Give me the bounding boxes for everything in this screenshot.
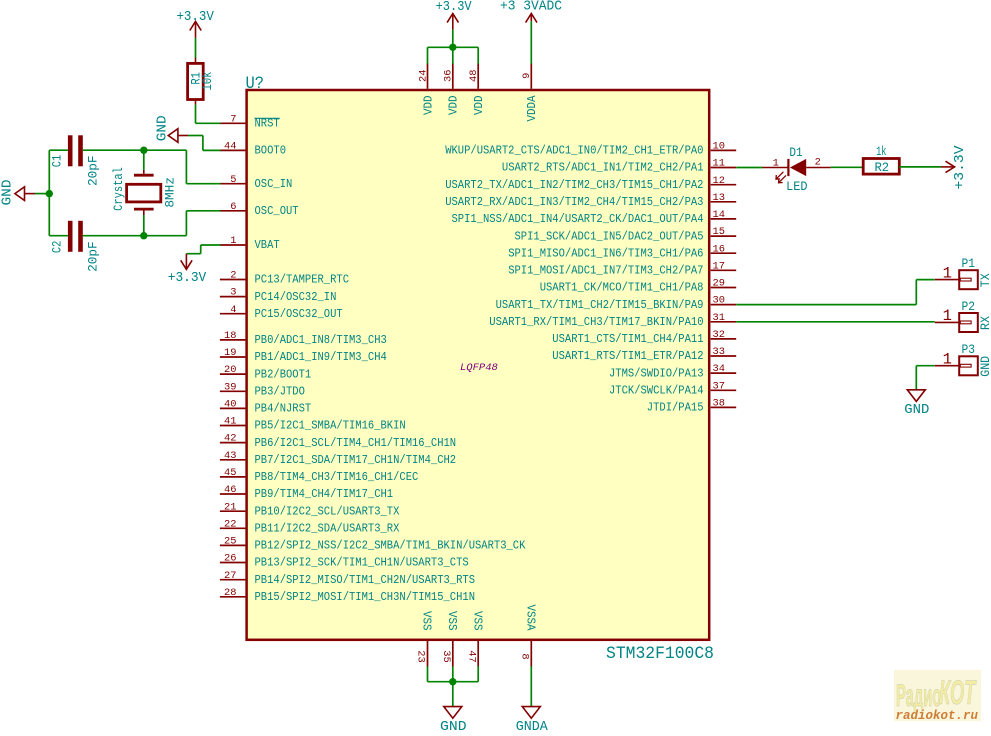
svg-text:6: 6 [230, 201, 236, 213]
svg-text:33: 33 [713, 346, 725, 358]
svg-text:48: 48 [468, 69, 480, 81]
svg-text:21: 21 [224, 501, 236, 513]
pin 45 (PB8/TIM4_CH3/TIM16_CH1/CEC) left [220, 467, 418, 484]
wire +3.3V to VDD junction [452, 30, 454, 64]
svg-text:1: 1 [943, 351, 952, 369]
power +3 3VADC (VDDA) [500, 0, 562, 23]
svg-text:2: 2 [815, 156, 821, 168]
pin 11 (PA1) right [502, 158, 736, 175]
pin 2 label of D1 [815, 156, 821, 168]
pin 27 (PB14/SPI2_MISO/TIM1_CH2N/USART3_RTS) left [220, 570, 475, 587]
svg-text:10: 10 [713, 141, 725, 153]
svg-text:26: 26 [224, 553, 236, 565]
svg-text:PB10/I2C2_SCL/USART3_TX: PB10/I2C2_SCL/USART3_TX [255, 504, 400, 518]
svg-text:20pF: 20pF [86, 155, 100, 186]
wire C2 to OSC_OUT [83, 211, 221, 236]
ground GND (P3) [904, 390, 929, 418]
wire crystal bottom stub [143, 215, 145, 236]
svg-text:PB9/TIM4_CH4/TIM17_CH1: PB9/TIM4_CH4/TIM17_CH1 [255, 487, 394, 501]
svg-text:8: 8 [519, 653, 531, 659]
svg-text:PB3/JTDO: PB3/JTDO [255, 385, 305, 399]
svg-text:42: 42 [224, 433, 236, 445]
svg-text:PB4/NJRST: PB4/NJRST [255, 402, 312, 416]
svg-text:SPI1_SCK/ADC1_IN5/DAC2_OUT/PA5: SPI1_SCK/ADC1_IN5/DAC2_OUT/PA5 [515, 229, 704, 243]
capacitor C2 20pF [51, 221, 101, 272]
svg-text:USART2_RTS/ADC1_IN1/TIM2_CH2/P: USART2_RTS/ADC1_IN1/TIM2_CH2/PA1 [502, 161, 704, 175]
pin 34 (PA13) right [609, 363, 736, 380]
svg-text:3: 3 [230, 287, 236, 299]
svg-text:PB6/I2C1_SCL/TIM4_CH1/TIM16_CH: PB6/I2C1_SCL/TIM4_CH1/TIM16_CH1N [255, 436, 457, 450]
svg-text:4: 4 [230, 304, 236, 316]
LED D1 [763, 146, 831, 194]
pin 46 (PB9/TIM4_CH4/TIM17_CH1) left [220, 484, 393, 501]
svg-text:1: 1 [943, 264, 952, 282]
svg-text:16: 16 [713, 243, 725, 255]
svg-text:PB2/BOOT1: PB2/BOOT1 [255, 367, 312, 381]
svg-text:GND: GND [440, 719, 467, 731]
svg-text:18: 18 [224, 330, 236, 342]
svg-text:24: 24 [417, 69, 429, 81]
svg-text:+3 3VADC: +3 3VADC [500, 0, 562, 14]
svg-text:47: 47 [465, 650, 477, 662]
svg-text:10k: 10k [201, 72, 215, 91]
wire VDDA [530, 21, 532, 64]
svg-text:38: 38 [713, 398, 725, 410]
pin 28 (PB15/SPI2_MOSI/TIM1_CH3N/TIM15_CH1N) left [220, 587, 475, 604]
wire C1 to OSC_IN [83, 150, 221, 184]
pin 44 (BOOT0) left [220, 141, 286, 158]
footprint label LQFP48 [460, 362, 498, 374]
svg-text:P2: P2 [962, 299, 976, 314]
svg-text:14: 14 [713, 209, 725, 221]
svg-text:VDDA: VDDA [525, 95, 539, 122]
svg-text:1: 1 [230, 235, 236, 247]
wire R1 to NRST pin 7 [196, 105, 221, 124]
ground GNDA (VSSA) [516, 707, 548, 735]
pin 9 (VDDA) top [521, 63, 539, 121]
svg-text:+3.3V: +3.3V [436, 0, 472, 15]
svg-text:USART1_TX/TIM1_CH2/TIM15_BKIN/: USART1_TX/TIM1_CH2/TIM15_BKIN/PA9 [496, 298, 704, 312]
svg-text:44: 44 [224, 141, 236, 153]
svg-text:+3.3V: +3.3V [168, 270, 207, 286]
svg-text:C1: C1 [51, 155, 65, 168]
svg-text:11: 11 [713, 158, 725, 170]
svg-text:PB13/SPI2_SCK/TIM1_CH1N/USART3: PB13/SPI2_SCK/TIM1_CH1N/USART3_CTS [255, 556, 469, 570]
svg-text:19: 19 [224, 347, 236, 359]
svg-text:VSSA: VSSA [523, 605, 537, 632]
svg-text:radiokot.ru: radiokot.ru [896, 709, 979, 723]
svg-text:D1: D1 [789, 146, 802, 160]
svg-text:32: 32 [713, 329, 725, 341]
svg-text:12: 12 [713, 175, 725, 187]
connector P3 (GND) [935, 342, 991, 377]
pin 3 (PC14/OSC32_IN) left [220, 287, 337, 304]
pin 29 (PA8) right [540, 278, 737, 295]
pin 22 (PB11/I2C2_SDA/USART3_RX) left [220, 518, 400, 535]
pin 48 (VDD) top [468, 63, 486, 115]
svg-text:P3: P3 [962, 342, 976, 357]
svg-text:27: 27 [224, 570, 236, 582]
svg-text:SPI1_MISO/ADC1_IN6/TIM3_CH1/PA: SPI1_MISO/ADC1_IN6/TIM3_CH1/PA6 [508, 246, 703, 260]
pin 13 (PA3) right [445, 192, 736, 209]
wire C1 left [49, 149, 68, 151]
svg-text:1: 1 [943, 307, 952, 325]
pin 32 (PA11) right [552, 329, 736, 346]
svg-text:VDD: VDD [447, 96, 461, 116]
svg-text:5: 5 [230, 174, 236, 186]
svg-text:VSS: VSS [445, 611, 459, 631]
svg-text:GND: GND [155, 115, 171, 141]
svg-text:GND: GND [978, 356, 991, 377]
wire PA10 to P2 [736, 321, 935, 323]
wire R2 to +3.3V [899, 166, 941, 168]
svg-text:1k: 1k [876, 145, 886, 159]
svg-text:RX: RX [978, 316, 991, 330]
svg-text:29: 29 [713, 278, 725, 290]
wire VDD bus [428, 47, 479, 64]
IC U? STM32F100C8 body [247, 90, 710, 640]
svg-text:17: 17 [713, 260, 725, 272]
svg-text:PB8/TIM4_CH3/TIM16_CH1/CEC: PB8/TIM4_CH3/TIM16_CH1/CEC [255, 470, 419, 484]
power +3.3V (VBAT) arrow down [168, 254, 207, 286]
svg-text:7: 7 [230, 113, 236, 125]
svg-text:PB7/I2C1_SDA/TIM17_CH1N/TIM4_C: PB7/I2C1_SDA/TIM17_CH1N/TIM4_CH2 [255, 453, 457, 467]
wire GND to cap bus [35, 193, 49, 195]
svg-text:43: 43 [224, 450, 236, 462]
pin 42 (PB6/I2C1_SCL/TIM4_CH1/TIM16_CH1N) left [220, 433, 456, 450]
pin 14 (PA4) right [452, 209, 737, 226]
svg-text:TX: TX [978, 273, 991, 287]
pin 16 (PA6) right [508, 243, 736, 260]
svg-text:USART1_CK/MCO/TIM1_CH1/PA8: USART1_CK/MCO/TIM1_CH1/PA8 [540, 281, 704, 295]
svg-text:Crystal: Crystal [112, 167, 126, 211]
svg-text:40: 40 [224, 399, 236, 411]
svg-text:PC13/TAMPER_RTC: PC13/TAMPER_RTC [255, 273, 350, 287]
pin 25 (PB12/SPI2_NSS/I2C2_SMBA/TIM1_BKIN/USART3_CK) left [220, 536, 526, 553]
svg-text:+3.3V: +3.3V [952, 145, 968, 189]
svg-text:9: 9 [521, 73, 533, 79]
value label STM32F100C8 [606, 644, 714, 664]
svg-text:LED: LED [786, 180, 807, 194]
svg-text:JTCK/SWCLK/PA14: JTCK/SWCLK/PA14 [609, 384, 704, 398]
svg-text:28: 28 [224, 587, 236, 599]
junction crystal bottom [140, 232, 147, 239]
ground GND (crystal) [0, 180, 35, 206]
ground GND (VSS) [440, 707, 467, 735]
svg-text:PC14/OSC32_IN: PC14/OSC32_IN [255, 290, 337, 304]
junction VDD bus [449, 44, 456, 51]
pin 6 (OSC_OUT) left [220, 201, 299, 218]
pin 24 (VDD) top [417, 63, 435, 115]
resistor R1 10k [188, 58, 215, 105]
wire PA9 to P1 [736, 280, 935, 305]
svg-text:31: 31 [713, 312, 725, 324]
wire VBAT to +3.3V [186, 245, 220, 254]
pin 1 label of D1 [773, 157, 779, 169]
svg-text:2: 2 [230, 270, 236, 282]
svg-text:8MHz: 8MHz [164, 177, 178, 208]
power +3.3V (VDD) [436, 0, 472, 30]
ground GND (BOOT0) [155, 115, 188, 142]
svg-text:GND: GND [0, 180, 16, 206]
pin 10 (PA0) right [445, 141, 736, 158]
pin 7 (NRST) left [220, 113, 280, 130]
svg-text:GND: GND [904, 402, 929, 418]
svg-text:PB12/SPI2_NSS/I2C2_SMBA/TIM1_B: PB12/SPI2_NSS/I2C2_SMBA/TIM1_BKIN/USART3… [255, 539, 526, 553]
pin 43 (PB7/I2C1_SDA/TIM17_CH1N/TIM4_CH2) left [220, 450, 456, 467]
svg-text:13: 13 [713, 192, 725, 204]
connector P1 (TX) [935, 256, 991, 289]
svg-text:USART1_CTS/TIM1_CH4/PA11: USART1_CTS/TIM1_CH4/PA11 [552, 332, 703, 346]
resistor R2 1k [863, 145, 899, 175]
svg-text:45: 45 [224, 467, 236, 479]
svg-text:36: 36 [443, 69, 455, 81]
wire VSSA [530, 666, 532, 706]
pin 30 (PA9) right [496, 295, 737, 312]
pin 39 (PB3/JTDO) left [220, 381, 305, 398]
svg-text:VDD: VDD [421, 96, 435, 116]
svg-text:OSC_IN: OSC_IN [255, 177, 293, 191]
svg-text:22: 22 [224, 518, 236, 530]
wire VSS bus [428, 666, 479, 706]
svg-text:USART2_RX/ADC1_IN3/TIM2_CH4/TI: USART2_RX/ADC1_IN3/TIM2_CH4/TIM15_CH2/PA… [445, 195, 703, 209]
svg-text:U?: U? [246, 74, 265, 94]
svg-text:20: 20 [224, 364, 236, 376]
svg-text:VSS: VSS [420, 611, 434, 631]
wire GND to BOOT0 pin 44 [188, 136, 221, 151]
wire +3.3V to R1 [195, 38, 197, 58]
wire C2 left [49, 235, 68, 237]
svg-text:LQFP48: LQFP48 [460, 362, 498, 374]
pin 40 (PB4/NJRST) left [220, 399, 311, 416]
svg-text:20pF: 20pF [86, 241, 100, 272]
power +3.3V (R1 pull-up) [176, 9, 214, 38]
svg-text:SPI1_MOSI/ADC1_IN7/TIM3_CH2/PA: SPI1_MOSI/ADC1_IN7/TIM3_CH2/PA7 [508, 264, 703, 278]
svg-text:JTMS/SWDIO/PA13: JTMS/SWDIO/PA13 [609, 366, 704, 380]
svg-text:PB15/SPI2_MOSI/TIM1_CH3N/TIM15: PB15/SPI2_MOSI/TIM1_CH3N/TIM15_CH1N [255, 590, 476, 604]
svg-text:35: 35 [440, 650, 452, 662]
pin 37 (PA14) right [609, 380, 736, 397]
svg-text:30: 30 [713, 295, 725, 307]
pin 18 (PB0/ADC1_IN8/TIM3_CH3) left [220, 330, 387, 347]
pin 5 (OSC_IN) left [220, 174, 292, 191]
power +3.3V (LED) arrow right [941, 145, 968, 189]
svg-text:41: 41 [224, 416, 236, 428]
wire PA1 to D1 [736, 167, 762, 169]
svg-text:PC15/OSC32_OUT: PC15/OSC32_OUT [255, 307, 343, 321]
pin 31 (PA10) right [489, 312, 736, 329]
pin 2 (PC13/TAMPER_RTC) left [220, 270, 349, 287]
svg-text:C2: C2 [51, 241, 65, 254]
reference designator U? [246, 74, 265, 94]
svg-text:JTDI/PA15: JTDI/PA15 [647, 401, 704, 415]
svg-text:P1: P1 [962, 256, 976, 271]
svg-text:USART1_RX/TIM1_CH3/TIM17_BKIN/: USART1_RX/TIM1_CH3/TIM17_BKIN/PA10 [489, 315, 703, 329]
svg-text:34: 34 [713, 363, 725, 375]
svg-text:КОТ: КОТ [939, 673, 977, 712]
pin 15 (PA5) right [515, 226, 737, 243]
pin 21 (PB10/I2C2_SCL/USART3_TX) left [220, 501, 400, 518]
svg-text:PB0/ADC1_IN8/TIM3_CH3: PB0/ADC1_IN8/TIM3_CH3 [255, 333, 387, 347]
pin 41 (PB5/I2C1_SMBA/TIM16_BKIN) left [220, 416, 406, 433]
svg-text:OSC_OUT: OSC_OUT [255, 204, 299, 218]
pin 38 (PA15) right [647, 398, 736, 415]
pin 19 (PB1/ADC1_IN9/TIM3_CH4) left [220, 347, 387, 364]
svg-text:VBAT: VBAT [255, 238, 280, 252]
junction GND bus [46, 190, 53, 197]
svg-text:37: 37 [713, 380, 725, 392]
svg-text:R2: R2 [874, 161, 889, 175]
capacitor C1 20pF [51, 135, 101, 186]
pin 23 (VSS) bottom [415, 611, 434, 667]
pin 47 (VSS) bottom [465, 611, 484, 667]
svg-text:BOOT0: BOOT0 [255, 144, 287, 158]
pin 33 (PA12) right [552, 346, 736, 363]
svg-text:USART2_TX/ADC1_IN2/TIM2_CH3/TI: USART2_TX/ADC1_IN2/TIM2_CH3/TIM15_CH1/PA… [445, 178, 703, 192]
pin 12 (PA2) right [445, 175, 736, 192]
svg-text:46: 46 [224, 484, 236, 496]
svg-text:PB1/ADC1_IN9/TIM3_CH4: PB1/ADC1_IN9/TIM3_CH4 [255, 350, 387, 364]
svg-text:WKUP/USART2_CTS/ADC1_IN0/TIM2_: WKUP/USART2_CTS/ADC1_IN0/TIM2_CH1_ETR/PA… [445, 144, 703, 158]
pin 26 (PB13/SPI2_SCK/TIM1_CH1N/USART3_CTS) left [220, 553, 469, 570]
svg-text:USART1_RTS/TIM1_ETR/PA12: USART1_RTS/TIM1_ETR/PA12 [552, 349, 703, 363]
pin 4 (PC15/OSC32_OUT) left [220, 304, 343, 321]
pin 35 (VSS) bottom [440, 611, 459, 667]
svg-text:25: 25 [224, 536, 236, 548]
svg-text:SPI1_NSS/ADC1_IN4/USART2_CK/DA: SPI1_NSS/ADC1_IN4/USART2_CK/DAC1_OUT/PA4 [452, 212, 704, 226]
svg-text:PB11/I2C2_SDA/USART3_RX: PB11/I2C2_SDA/USART3_RX [255, 522, 400, 536]
svg-text:PB14/SPI2_MISO/TIM1_CH2N/USART: PB14/SPI2_MISO/TIM1_CH2N/USART3_RTS [255, 573, 476, 587]
junction VSS bus [449, 678, 456, 685]
pin 20 (PB2/BOOT1) left [220, 364, 311, 381]
wire P3 to GND [916, 366, 935, 390]
pin 8 (VSSA) bottom [519, 605, 538, 667]
connector P2 (RX) [935, 299, 991, 332]
pin 1 (VBAT) left [220, 235, 280, 252]
svg-text:STM32F100C8: STM32F100C8 [606, 644, 714, 664]
pin 36 (VDD) top [443, 63, 461, 115]
wire D1 to R2 [831, 166, 863, 168]
wire crystal top stub [143, 150, 145, 170]
wire cap bus vertical [48, 150, 50, 236]
svg-text:15: 15 [713, 226, 725, 238]
crystal Y1 8MHz [112, 167, 178, 215]
svg-text:39: 39 [224, 381, 236, 393]
svg-text:VDD: VDD [472, 96, 486, 116]
junction crystal top [140, 147, 147, 154]
pin 17 (PA7) right [508, 260, 736, 277]
svg-text:VSS: VSS [470, 611, 484, 631]
svg-text:PB5/I2C1_SMBA/TIM16_BKIN: PB5/I2C1_SMBA/TIM16_BKIN [255, 419, 406, 433]
svg-text:23: 23 [415, 650, 427, 662]
svg-text:GNDA: GNDA [516, 719, 548, 731]
watermark radiokot logo [894, 670, 981, 723]
